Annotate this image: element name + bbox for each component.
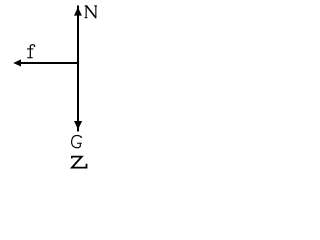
wire vertical force line — [77, 13, 79, 122]
arrowhead down (G) — [74, 121, 82, 130]
caption 乙 — [72, 157, 87, 168]
label N — [85, 5, 97, 18]
wire horizontal force line — [19, 62, 79, 64]
arrowhead left (f) — [13, 59, 21, 66]
label G — [72, 135, 82, 147]
arrowhead up (N) — [74, 7, 82, 15]
label f — [27, 45, 35, 59]
